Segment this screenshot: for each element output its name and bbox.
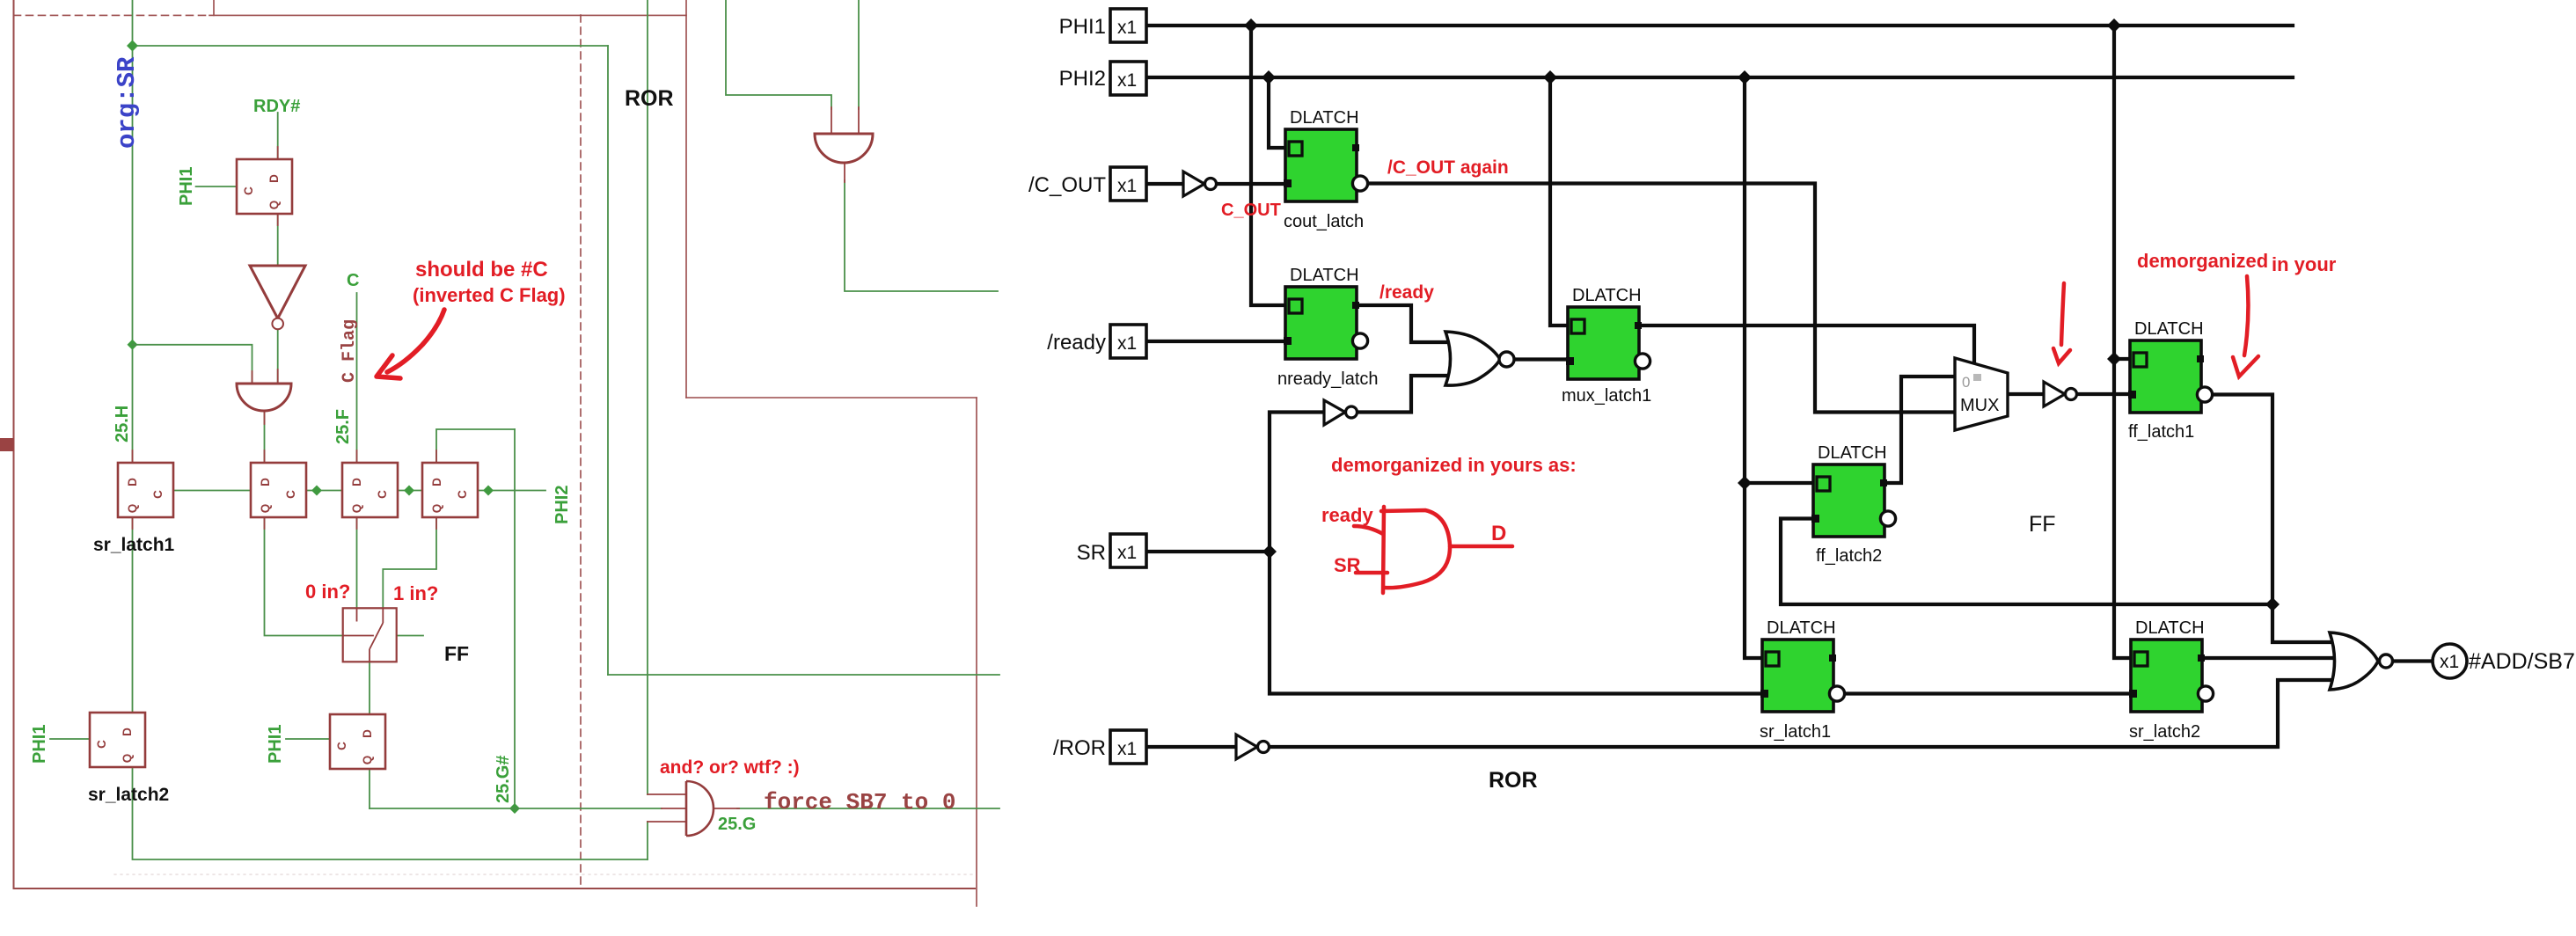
wire C flag vertical x=405.5	[356, 293, 358, 463]
port SR	[1110, 534, 1152, 567]
port /ROR	[1110, 730, 1152, 764]
wire PHI2 bus	[1146, 76, 2293, 79]
latch 4 of row	[422, 463, 478, 517]
black bold labels left	[88, 86, 674, 805]
svg-text:DLATCH: DLATCH	[1818, 443, 1887, 463]
port /C_OUT	[1110, 167, 1152, 201]
gate B half-disc top middle	[815, 134, 873, 163]
latch sr_latch2	[90, 713, 145, 767]
wire sr_latch1 Q to sr_latch2 D	[1841, 691, 2131, 695]
svg-text:#ADD/SB7: #ADD/SB7	[2469, 649, 2575, 674]
switch internals	[343, 608, 384, 662]
wire PHI2 drop to mux_latch1 clock	[1550, 77, 1568, 325]
svg-text:ff_latch2: ff_latch2	[1816, 546, 1882, 566]
NOR gate 3-input	[2330, 633, 2378, 690]
wire force SB7 line y=919 right of gate	[737, 808, 999, 809]
node dot 555,557.5	[483, 486, 494, 496]
wire PHI2 drop to cout clock	[1269, 77, 1285, 148]
svg-text:(inverted C Flag): (inverted C Flag)	[413, 284, 566, 306]
svg-text:org:SR: org:SR	[113, 56, 142, 149]
inverter triangle + bubble	[250, 266, 305, 318]
svg-text:/C_OUT: /C_OUT	[1028, 173, 1106, 197]
wire net SR vertical x=150.5 top	[132, 0, 134, 463]
svg-text:C Flag: C Flag	[340, 319, 360, 383]
wire latch4 D up and right to 25.G# vertical	[436, 429, 515, 463]
wire sr_latch2 Q down and right y=977	[133, 769, 648, 859]
svg-text:/ready: /ready	[1379, 282, 1434, 303]
wire nready out to OR in1	[1357, 305, 1448, 342]
wire latch4 Q down-left into FF switch 1-input	[383, 516, 436, 609]
svg-text:PHI2: PHI2	[553, 486, 572, 524]
svg-text:ff_latch1: ff_latch1	[2128, 422, 2194, 442]
output terminal circle x1	[2433, 644, 2467, 678]
DLATCH captions	[1277, 108, 2575, 793]
svg-text:25.H: 25.H	[113, 406, 132, 442]
svg-text:FF: FF	[2029, 512, 2056, 537]
wire horizontal y=767	[608, 674, 999, 676]
wire ROR line to NOR in3	[1270, 680, 2338, 747]
svg-text:/ROR: /ROR	[1053, 736, 1106, 760]
wire FF switch out down to PHI1 latch	[369, 662, 370, 716]
latch mux_latch1	[1566, 307, 1650, 379]
svg-text:mux_latch1: mux_latch1	[1562, 386, 1651, 406]
inverter SR->OR	[1324, 400, 1345, 425]
wire sr_latch2 out to NOR in2	[2202, 656, 2342, 660]
latch ff_latch1	[2128, 340, 2213, 413]
svg-text:RDY#: RDY#	[253, 97, 300, 116]
dark red pin stubs gate C (AND) inputs/out	[648, 794, 739, 822]
port labels	[1028, 15, 1106, 760]
frame dashed top segment	[14, 14, 210, 16]
svg-text:DLATCH: DLATCH	[1290, 108, 1359, 128]
wire ff_latch2 out feedback to MUX in1	[1884, 377, 1955, 483]
port PHI2	[1110, 62, 1152, 95]
svg-text:DLATCH: DLATCH	[2135, 618, 2205, 638]
wire /ROR input to inverter	[1145, 745, 1236, 749]
wire RDY# down to latch	[277, 113, 279, 159]
port /ready	[1110, 325, 1152, 358]
wire inverter out to gate A	[277, 329, 279, 384]
svg-text:C_OUT: C_OUT	[1221, 201, 1281, 220]
gate C AND right-pointing (25.G)	[686, 781, 714, 836]
svg-text:sr_latch1: sr_latch1	[93, 535, 175, 555]
svg-text:MUX: MUX	[1960, 396, 1999, 415]
svg-text:ready: ready	[1321, 504, 1373, 526]
svg-text:C: C	[347, 271, 359, 290]
pin stub inverter to gate A	[252, 369, 278, 424]
wire PHI1 drop to ff_latch1 clock and sr_latch2 clock	[2114, 26, 2131, 658]
pin stub RDY latch top	[277, 147, 279, 225]
svg-text:/C_OUT again: /C_OUT again	[1387, 157, 1509, 178]
red arrow at MUX inverter	[2061, 283, 2064, 345]
node dot 465,557.5	[404, 486, 414, 496]
svg-text:demorganized: demorganized	[2137, 250, 2268, 272]
frame stub vertical x=243	[213, 0, 215, 15]
svg-text:nready_latch: nready_latch	[1277, 369, 1379, 389]
inverter /ROR	[1236, 735, 1257, 759]
wire top-middle net x=976	[858, 0, 860, 109]
latch sr_latch2	[2129, 640, 2214, 712]
gate A half-disc below inverter	[237, 384, 291, 411]
svg-text:sr_latch1: sr_latch1	[1760, 722, 1831, 742]
svg-text:PHI1: PHI1	[177, 167, 196, 206]
wire ROR vertical x=736	[647, 0, 648, 794]
svg-text:25.F: 25.F	[333, 409, 353, 444]
wire y=687 feedback to ff_latch2 D	[1781, 519, 2272, 605]
frame right vertical x=780	[685, 0, 687, 398]
svg-text:and? or? wtf? :): and? or? wtf? :)	[660, 757, 800, 778]
latch 3 of row	[342, 463, 398, 517]
svg-text:sr_latch2: sr_latch2	[2129, 722, 2200, 742]
left green labels	[30, 97, 756, 834]
frame solid top segment	[209, 14, 686, 16]
wire sr_latch1 Q down to sr_latch2 D	[132, 516, 134, 713]
port PHI1	[1110, 9, 1152, 42]
pin stubs latch row bottoms	[133, 516, 437, 529]
svg-text:0 in?: 0 in?	[305, 581, 350, 603]
node ff_latch2 clock x=1983	[1738, 476, 1752, 490]
red arrow annotation left	[387, 310, 444, 372]
wire PHI2 drop to ff_latch2 clock and sr_latch1 clock	[1745, 77, 1813, 483]
svg-text:/ready: /ready	[1047, 331, 1106, 355]
latch ff_latch2	[1811, 464, 1896, 537]
junction dots right	[1244, 18, 2280, 611]
wire gate A out to latch2 D	[264, 411, 266, 463]
svg-text:PHI1: PHI1	[1059, 15, 1106, 39]
svg-text:DLATCH: DLATCH	[1290, 266, 1359, 285]
svg-text:demorganized in yours as:: demorganized in yours as:	[1331, 454, 1577, 476]
svg-text:PHI1: PHI1	[30, 725, 49, 764]
node ff_latch1 clock x=2403	[2107, 352, 2121, 366]
wire /ready input	[1145, 340, 1285, 343]
wire SR input	[1145, 550, 1270, 553]
OR gate	[1445, 332, 1500, 385]
red hand-drawn gate	[1354, 276, 2258, 593]
svg-text:sr_latch2: sr_latch2	[88, 785, 169, 805]
dark red pin stubs gate B inputs	[831, 107, 859, 182]
wire NOR out to terminal	[2393, 659, 2433, 662]
node SR x=1443	[1262, 545, 1277, 559]
node PHI1 x=2403	[2107, 18, 2121, 33]
wire branch to gate A left input	[133, 345, 252, 384]
latch mid PHI1	[330, 714, 385, 769]
wire top-middle net L x=825	[726, 0, 831, 109]
svg-text:should be #C: should be #C	[415, 258, 548, 282]
wire stub right of FF switch	[397, 635, 423, 637]
wire latch2 Q down to FF switch left input	[265, 518, 343, 636]
svg-text:1 in?: 1 in?	[393, 582, 438, 604]
wire SR down to sr_latch1 D	[1270, 552, 1762, 694]
faint dotted marquee line	[114, 874, 973, 875]
node PHI2 x=1983	[1738, 70, 1752, 84]
node PHI2 x=1442	[1262, 70, 1276, 84]
wire PHI1 to mid latch C	[286, 738, 330, 740]
node ff_latch1 Q x=2583 y=687	[2265, 597, 2280, 611]
svg-text:x1: x1	[2440, 652, 2459, 672]
wire PHI2 row y=557.5	[173, 490, 545, 492]
svg-text:D: D	[1491, 522, 1506, 545]
inverter /C_OUT	[1183, 172, 2077, 759]
wire net top horizontal y=52	[133, 45, 609, 47]
node PHI2 x=1762	[1543, 70, 1557, 84]
wire top latch Q to inverter	[277, 213, 279, 266]
wire mux_latch1 out to MUX select	[1639, 325, 1974, 367]
node dot at 150.5,391.8	[128, 340, 138, 350]
red arrow at ff_latch1	[2244, 276, 2248, 355]
wire PHI1 to sr_latch2 C	[50, 738, 90, 740]
wire cout Q to mux in2	[1366, 184, 1955, 413]
svg-text:in your: in your	[2272, 253, 2337, 275]
wire PHI1 bus	[1146, 24, 2293, 27]
FF switch box	[343, 608, 397, 662]
node dot at 150.5,52	[127, 40, 138, 52]
frame horizontal y=452	[686, 397, 977, 399]
wire up x=736 into gate C input	[647, 822, 648, 859]
red annotations right	[1221, 157, 2337, 576]
svg-text:ROR: ROR	[625, 86, 674, 111]
svg-text:SR: SR	[1077, 541, 1106, 565]
frame left border	[13, 0, 15, 888]
svg-text:cout_latch: cout_latch	[1284, 212, 1364, 231]
MUX trapezoid	[1955, 358, 2008, 430]
wire force SB7 line y=919 left of gate	[370, 808, 662, 809]
wire /C_OUT input to inverter	[1146, 182, 1183, 186]
wire ff_latch1 Q right and down to NOR in1	[2210, 395, 2338, 643]
svg-text:DLATCH: DLATCH	[2134, 319, 2204, 339]
svg-text:DLATCH: DLATCH	[1767, 618, 1836, 638]
red annotations left	[305, 258, 800, 778]
frame bottom border	[14, 888, 976, 889]
wire 25.G# vertical x=585	[514, 429, 516, 808]
inverter MUX->ff_latch1	[2044, 382, 2065, 406]
wire gate B out down and right y=331	[845, 180, 998, 291]
svg-text:DLATCH: DLATCH	[1572, 286, 1642, 305]
wire PHI1 drop to nready clock	[1251, 26, 1285, 305]
left edge solid tab	[0, 438, 14, 451]
wire vertical x=691	[607, 46, 609, 675]
latch 2 of row	[251, 463, 306, 517]
svg-text:PHI1: PHI1	[266, 725, 285, 764]
latch nready_latch	[1284, 287, 1368, 359]
latch cout_latch	[1284, 129, 1368, 201]
wire latch3 Q down to FF switch	[356, 516, 358, 609]
wire SR up to inverter and OR in2	[1270, 413, 1324, 552]
latch sr_latch1	[118, 463, 173, 517]
node dot 360,557.5	[311, 486, 322, 496]
svg-text:25.G#: 25.G#	[494, 756, 513, 803]
wire PHI1 to top latch C	[196, 186, 237, 187]
node dot 585,919	[509, 803, 520, 814]
svg-text:PHI2: PHI2	[1059, 67, 1106, 91]
wire inverter to ff_latch1 D	[2077, 392, 2130, 396]
svg-text:0: 0	[1962, 374, 1970, 391]
node PHI1 x=1422	[1244, 18, 1258, 33]
wire MUX out to inverter	[2008, 392, 2044, 396]
latch RDY (top)	[237, 159, 292, 214]
pin stubs latch row tops	[133, 450, 437, 463]
svg-text:force SB7 to 0: force SB7 to 0	[764, 789, 955, 815]
svg-text:FF: FF	[444, 642, 469, 665]
wire PHI1 latch Q down to force-SB7 line	[369, 767, 370, 808]
wire OR out to mux_latch1 D	[1512, 357, 1568, 361]
svg-text:25.G: 25.G	[718, 815, 756, 834]
dashed partition line x=660	[580, 15, 582, 888]
frame right vertical x=1110	[976, 398, 977, 906]
latch sr_latch1	[1760, 640, 1845, 712]
svg-text:ROR: ROR	[1489, 768, 1538, 793]
wire inverter to cout D	[1217, 182, 1285, 186]
